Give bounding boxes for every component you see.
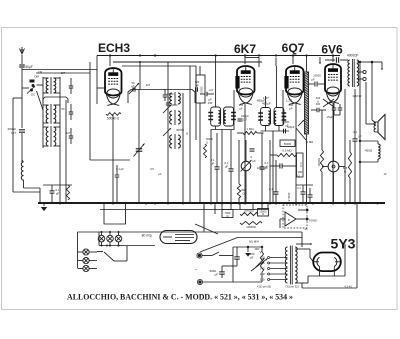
svg-text:OM: OM: [34, 75, 39, 79]
svg-text:1 MΩ: 1 MΩ: [246, 127, 254, 131]
svg-text:μF: μF: [208, 98, 212, 102]
svg-text:C.S.: C.S.: [299, 162, 303, 167]
svg-text:CM: CM: [38, 70, 42, 74]
svg-text:Ω: Ω: [206, 141, 208, 144]
svg-text:Ω: Ω: [242, 192, 244, 196]
svg-text:4000ΩF: 4000ΩF: [347, 54, 358, 58]
svg-text:μF: μF: [252, 159, 256, 163]
svg-text:P: P: [288, 218, 290, 222]
svg-text:160: 160: [260, 272, 265, 276]
svg-text:5Y3: 5Y3: [331, 236, 356, 252]
svg-text:μF: μF: [56, 191, 60, 195]
svg-text:30000: 30000: [176, 128, 184, 132]
svg-text:μF: μF: [158, 172, 161, 176]
svg-text:4,2Ω per 53): 4,2Ω per 53): [257, 286, 271, 289]
svg-text:μF: μF: [211, 162, 215, 166]
svg-text:140: 140: [260, 267, 265, 271]
svg-text:6Ω M/A: 6Ω M/A: [249, 240, 259, 244]
svg-text:30000: 30000: [200, 87, 203, 95]
svg-text:80 m/μ: 80 m/μ: [142, 234, 152, 238]
svg-text:4-1-43: 4-1-43: [344, 286, 352, 289]
svg-text:450μF: 450μF: [257, 99, 265, 103]
svg-text:Ω: Ω: [186, 132, 188, 136]
svg-text:0,5 MΩ: 0,5 MΩ: [282, 149, 292, 153]
svg-text:μF: μF: [239, 106, 242, 110]
svg-text:Ω: Ω: [317, 99, 319, 103]
svg-text:ALLOCCHIO, BACCHINI & C. - MOD: ALLOCCHIO, BACCHINI & C. - MODD. « 521 »…: [67, 293, 293, 302]
svg-text:50μF: 50μF: [25, 65, 32, 69]
svg-text:6K7: 6K7: [234, 42, 256, 56]
svg-text:1 MΩ: 1 MΩ: [307, 140, 313, 144]
svg-text:427: 427: [146, 83, 151, 87]
svg-text:Ω: Ω: [227, 214, 229, 218]
svg-text:∼: ∼: [194, 267, 197, 272]
svg-text:0,1: 0,1: [353, 130, 357, 134]
svg-text:127: 127: [243, 118, 248, 122]
svg-text:+27: +27: [209, 88, 214, 92]
svg-text:μF: μF: [311, 78, 315, 82]
svg-text:μF: μF: [250, 256, 254, 260]
svg-text:μF: μF: [358, 134, 361, 138]
svg-text:25μF: 25μF: [327, 115, 333, 119]
svg-text:450Ω: 450Ω: [365, 149, 373, 153]
svg-text:0,1: 0,1: [297, 187, 301, 190]
svg-text:Ω: Ω: [344, 170, 346, 174]
svg-text:7,62 per 521: 7,62 per 521: [285, 286, 300, 289]
svg-text:500000: 500000: [317, 158, 320, 167]
svg-text:6V6: 6V6: [321, 43, 343, 57]
svg-text:μF: μF: [289, 107, 293, 111]
svg-text:125: 125: [260, 261, 265, 265]
svg-text:μF: μF: [215, 273, 219, 277]
svg-text:450: 450: [239, 103, 244, 107]
svg-text:ECH3: ECH3: [98, 41, 130, 55]
svg-text:FONO: FONO: [309, 219, 317, 223]
svg-text:G.M.12: G.M.12: [353, 94, 362, 98]
svg-text:50000: 50000: [284, 142, 292, 146]
svg-text:6Q7: 6Q7: [282, 41, 305, 55]
svg-text:150: 150: [208, 101, 213, 105]
svg-text:127: 127: [11, 131, 16, 135]
svg-text:10000Ω: 10000Ω: [246, 225, 255, 229]
svg-text:μF: μF: [225, 165, 229, 169]
svg-text:50000Ω: 50000Ω: [244, 209, 253, 213]
svg-text:110: 110: [260, 256, 265, 260]
svg-text:μF: μF: [286, 124, 289, 127]
svg-text:0,5: 0,5: [150, 167, 154, 171]
svg-text:Ω: Ω: [262, 213, 264, 216]
svg-text:127: 127: [61, 71, 66, 75]
svg-text:220: 220: [260, 278, 265, 282]
svg-text:625: 625: [343, 166, 348, 170]
svg-text:6000 A: 6000 A: [287, 193, 291, 202]
svg-text:400: 400: [316, 96, 321, 100]
svg-text:10000μF: 10000μF: [257, 166, 268, 170]
svg-text:100: 100: [195, 80, 200, 84]
svg-text:127: 127: [66, 131, 71, 135]
svg-text:10000: 10000: [313, 74, 321, 78]
